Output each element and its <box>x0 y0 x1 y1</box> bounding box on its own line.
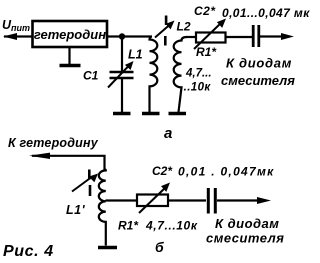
resistor R1' (variable) <box>137 195 168 207</box>
svg-text:4,7...10к: 4,7...10к <box>145 219 198 233</box>
svg-text:смесителя: смесителя <box>206 231 284 246</box>
junction node dot <box>119 33 125 39</box>
L2 tick mark lower <box>164 36 167 46</box>
svg-text:0,01...0,047 мк: 0,01...0,047 мк <box>222 6 310 20</box>
ground L2 <box>169 112 187 116</box>
capacitor C2 plates <box>253 25 259 47</box>
wire tap L1' to R1' <box>106 199 138 201</box>
svg-text:б: б <box>155 239 164 255</box>
L1' variable arrow <box>72 178 91 192</box>
R1 variable arrow <box>194 23 222 50</box>
capacitor C1 (variable) plates <box>110 72 134 78</box>
wire C2' output <box>217 199 259 201</box>
ground under box <box>60 64 81 68</box>
L1' tick mark lower <box>89 185 92 196</box>
svg-text:К диодам: К диодам <box>226 56 292 71</box>
wire R1 to C2 <box>226 36 253 38</box>
L1' tick mark upper <box>88 170 91 180</box>
wire box output to L1 <box>107 35 152 37</box>
svg-text:К гетеродину: К гетеродину <box>8 136 99 150</box>
ground L1' <box>98 246 117 250</box>
output arrowhead (to mixer diodes) <box>281 33 294 40</box>
wire junction to C1 <box>121 37 123 72</box>
wire R1' to C2' <box>168 199 206 201</box>
svg-text:смесителя: смесителя <box>221 73 295 88</box>
resistor R1 (variable) <box>196 33 226 43</box>
svg-text:...10к: ...10к <box>180 82 211 94</box>
R1' variable arrow <box>139 188 166 214</box>
L2 variable arrow <box>155 25 170 38</box>
svg-text:а: а <box>164 125 172 142</box>
wire C2 output <box>260 35 283 37</box>
wire L2 to R1 <box>186 36 196 38</box>
inductor L1 winding <box>150 37 158 113</box>
svg-text:R1*: R1* <box>118 219 139 233</box>
arrowhead to oscillator (points left) <box>29 153 50 159</box>
svg-text:0,01 . 0,047мк: 0,01 . 0,047мк <box>178 165 275 179</box>
C1 variable arrow <box>108 65 130 88</box>
inductor L2 winding <box>174 37 187 112</box>
capacitor C2' plates <box>208 188 215 214</box>
oscillator box U1 гетеродин <box>33 21 108 47</box>
svg-text:L1': L1' <box>66 203 86 217</box>
svg-text:L2: L2 <box>177 20 191 34</box>
svg-text:Рис. 4: Рис. 4 <box>3 243 54 260</box>
ground C1 <box>113 112 131 116</box>
svg-text:C1: C1 <box>83 69 99 83</box>
svg-text:К диодам: К диодам <box>215 216 279 231</box>
output arrowhead (to mixer diodes) <box>257 197 271 204</box>
svg-text:R1*: R1* <box>196 45 217 59</box>
ground L1 <box>142 112 160 116</box>
svg-text:C2*: C2* <box>152 164 173 178</box>
wire to oscillator with corner <box>32 156 105 170</box>
svg-text:4,7...: 4,7... <box>185 68 212 80</box>
L2 tick mark upper <box>165 16 168 26</box>
wire Uпит feed <box>4 35 32 37</box>
svg-text:C2*: C2* <box>194 4 216 18</box>
svg-text:гетеродин: гетеродин <box>34 27 106 42</box>
svg-text:Uпит: Uпит <box>2 18 30 33</box>
arrowhead Uпит (points left) <box>3 33 17 40</box>
inductor L1' winding <box>99 170 106 246</box>
svg-text:L1: L1 <box>128 48 143 62</box>
wire C1 to ground <box>121 78 123 112</box>
wire box to ground <box>68 47 70 64</box>
